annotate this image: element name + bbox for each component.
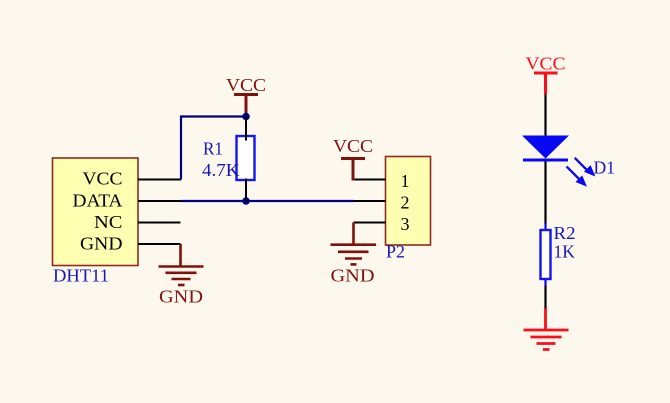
svg-text:GND: GND	[80, 234, 123, 254]
svg-text:GND: GND	[159, 287, 203, 307]
svg-text:P2: P2	[386, 241, 405, 261]
svg-text:VCC: VCC	[83, 169, 123, 189]
svg-text:GND: GND	[331, 266, 375, 286]
svg-text:4.7K: 4.7K	[202, 160, 240, 180]
svg-text:3: 3	[401, 214, 410, 234]
svg-text:VCC: VCC	[526, 53, 566, 73]
svg-text:VCC: VCC	[226, 75, 266, 95]
svg-text:NC: NC	[94, 212, 123, 232]
svg-text:R1: R1	[203, 139, 223, 159]
svg-text:1: 1	[401, 171, 410, 191]
svg-text:R2: R2	[554, 223, 576, 243]
svg-text:1K: 1K	[554, 242, 576, 262]
svg-text:VCC: VCC	[333, 136, 373, 156]
svg-text:2: 2	[401, 192, 410, 212]
svg-text:D1: D1	[594, 158, 616, 178]
svg-text:DHT11: DHT11	[53, 266, 109, 286]
svg-text:DATA: DATA	[73, 191, 123, 211]
